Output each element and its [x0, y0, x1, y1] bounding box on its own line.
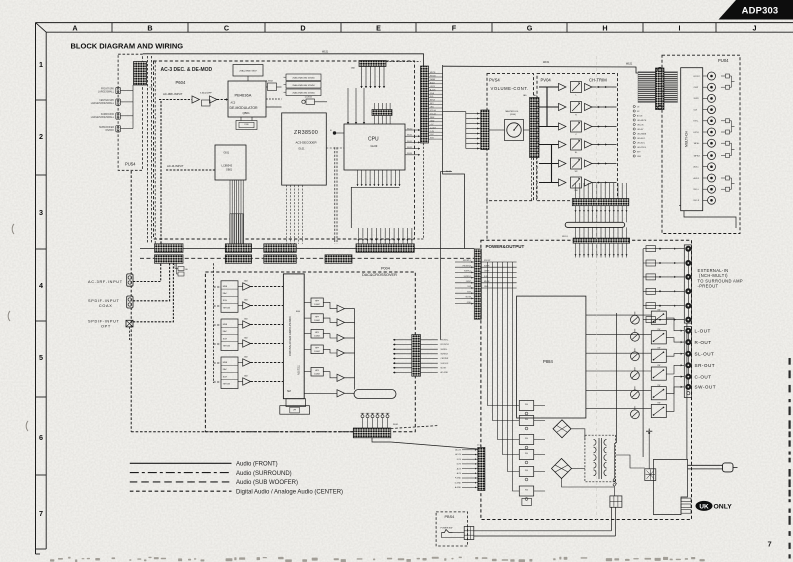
svg-text:SURR: SURR	[694, 98, 700, 100]
svg-text:GND: GND	[430, 120, 435, 122]
svg-text:OPT: OPT	[101, 324, 111, 328]
svg-text:100HZ: 100HZ	[314, 320, 321, 322]
svg-text:DE-MODULATOR: DE-MODULATOR	[230, 106, 259, 110]
svg-text:CROSS-OVER AMP/LPF/MIX: CROSS-OVER AMP/LPF/MIX	[288, 316, 292, 356]
trim channel row 4	[539, 139, 617, 154]
svg-text:1: 1	[39, 60, 43, 69]
svg-text:CH-TRIM: CH-TRIM	[589, 78, 607, 83]
svg-text:WL50: WL50	[407, 128, 413, 130]
svg-text:FRONT-R: FRONT-R	[463, 265, 472, 267]
wire vertical bus right of CPU	[441, 171, 453, 173]
connector strip on cable	[656, 68, 665, 110]
dashed box PBS4	[436, 512, 468, 546]
label EXTERNAL-IN	[698, 268, 743, 289]
svg-text:R-OUT: R-OUT	[695, 340, 712, 345]
svg-text:H: H	[602, 24, 607, 33]
IC ZR38500 AC3-DECODER GL01	[282, 113, 327, 185]
svg-text:FRONT: FRONT	[484, 260, 491, 262]
connector JB4	[225, 255, 251, 263]
svg-text:POWER SW: POWER SW	[441, 528, 453, 530]
trim channel row 5	[539, 158, 617, 173]
svg-text:MUTE: MUTE	[430, 72, 436, 74]
svg-text:FRONT-L: FRONT-L	[463, 260, 471, 262]
trim channel row 6	[539, 177, 617, 192]
fan wires below WL41	[575, 183, 628, 222]
CPU right side pins	[405, 128, 420, 156]
svg-text:GND: GND	[637, 156, 642, 158]
dashed box AC-3 DEC. & DE-MOD P604	[154, 61, 415, 239]
svg-text:LARGE/SMALL: LARGE/SMALL	[98, 91, 115, 94]
connector C8 signal list	[633, 105, 647, 157]
svg-text:GB2: GB2	[244, 338, 248, 340]
svg-text:LARGE/NONE/SMALL: LARGE/NONE/SMALL	[91, 116, 115, 119]
AC plug	[723, 463, 734, 472]
box P884	[517, 296, 586, 418]
DAC block 3	[221, 357, 238, 389]
dashed box PU04	[662, 55, 740, 233]
svg-text:GB2: GB2	[244, 300, 248, 302]
trim channel row 1	[539, 82, 617, 97]
svg-text:SUBWOOFER: SUBWOOFER	[99, 127, 114, 129]
svg-text:A-CLK: A-CLK	[430, 88, 436, 91]
svg-text:2SA4-GRAY-GB4 1/2B450: 2SA4-GRAY-GB4 1/2B450	[292, 76, 314, 79]
svg-text:7W: 7W	[657, 403, 660, 405]
tiny components below JB2	[178, 267, 184, 271]
svg-text:2SA4-GRAY-GB4 1/2B450: 2SA4-GRAY-GB4 1/2B450	[292, 91, 314, 94]
vertical wire bus to volume block	[443, 65, 465, 249]
svg-text:2SA4-GRAY GB37: 2SA4-GRAY GB37	[239, 69, 257, 72]
svg-text:7SH DB: 7SH DB	[223, 346, 231, 348]
svg-text:REC-L: REC-L	[694, 189, 699, 191]
wires ZR to CPU verticals	[347, 88, 365, 124]
amp buffer 1	[192, 96, 200, 103]
svg-text:LED-MUTE: LED-MUTE	[637, 120, 647, 122]
svg-text:7W: 7W	[657, 329, 660, 331]
svg-text:CPU: CPU	[368, 137, 379, 143]
ground tick	[646, 430, 652, 432]
svg-text:SURR-R: SURR-R	[441, 354, 449, 356]
jack SPDIF COAX	[127, 296, 133, 308]
svg-text:(2004): (2004)	[510, 114, 516, 116]
svg-text:GND: GND	[484, 286, 489, 288]
svg-text:2: 2	[39, 132, 43, 141]
svg-text:S-W: S-W	[467, 286, 471, 288]
svg-text:REM: REM	[430, 117, 435, 119]
speaker config labels	[91, 89, 115, 132]
bottom connector JC2 strip	[353, 428, 391, 438]
labels right of JD2	[481, 260, 516, 288]
fan wires below pill	[576, 227, 627, 238]
power switch symbol	[442, 530, 453, 533]
svg-text:Audio (SURROUND): Audio (SURROUND)	[236, 471, 292, 477]
wires GI01 bottom pins into bus	[230, 180, 243, 214]
svg-text:PVS4: PVS4	[489, 78, 500, 83]
bridge rectifier 1	[553, 420, 571, 438]
bridge rectifier 2	[552, 459, 572, 479]
svg-text:MUTE: MUTE	[484, 281, 490, 283]
wire long dashed bus	[140, 257, 474, 259]
svg-text:AUX-L: AUX-L	[694, 166, 699, 169]
svg-text:GB2: GB2	[244, 281, 248, 283]
box RT40 crystal	[236, 121, 257, 130]
svg-text:D-IN: D-IN	[430, 131, 435, 133]
legend line Audio SURROUND	[130, 472, 232, 474]
wires dashed pair left of CPU	[334, 147, 336, 244]
wires into JD2 with labels	[455, 260, 474, 304]
IC CROSS-OVER AMP/LPF/MIX NJU7311	[283, 274, 304, 399]
svg-text:FRONT-R: FRONT-R	[441, 344, 450, 346]
border frame left ruler band	[36, 23, 47, 554]
svg-text:LED-KARA: LED-KARA	[637, 132, 647, 135]
switch contacts	[613, 479, 615, 481]
ruler column letters A-J	[72, 24, 756, 33]
wire loop bottom of MULTI-CH	[684, 211, 736, 228]
svg-text:SCH: SCH	[223, 338, 228, 340]
IC GI01 LC89343 GB01	[215, 145, 246, 180]
svg-text:B: B	[147, 24, 152, 33]
wire AC-3RF dashed with buffer amps	[159, 99, 192, 101]
connector JB7	[325, 255, 352, 263]
jack panel strip external	[684, 245, 691, 323]
svg-text:A-9V: A-9V	[457, 472, 462, 475]
svg-text:LC89343: LC89343	[222, 164, 233, 168]
jack panel strip outputs	[684, 327, 691, 398]
wires into JC1 with labels	[455, 449, 478, 490]
svg-text:LPF: LPF	[293, 409, 296, 411]
svg-text:VOLUME-CONT.: VOLUME-CONT.	[491, 86, 529, 91]
svg-text:E: E	[376, 24, 381, 33]
svg-text:VOL-B: VOL-B	[430, 114, 436, 116]
legend line Audio SUB WOOFER	[130, 481, 232, 483]
IC PB4636A AC3 DE-MODULATOR QB01	[228, 81, 266, 117]
connector strip above CPU	[372, 110, 392, 116]
svg-text:ONLY: ONLY	[714, 504, 733, 511]
svg-text:ON/OFF: ON/OFF	[105, 130, 114, 132]
svg-text:PB4636A: PB4636A	[235, 93, 252, 98]
output jacks	[686, 328, 691, 390]
left margin curl marks	[8, 224, 28, 431]
wire JC2 to power connector	[372, 438, 478, 449]
BPF 5.6442 block	[202, 100, 211, 106]
connector JA6 strip top middle	[359, 61, 386, 67]
wire dashed PVS4 bottom to POWER box	[486, 201, 488, 241]
wires into PVS4 with arrows	[466, 112, 481, 149]
svg-text:MSB: MSB	[223, 324, 228, 326]
wires fan below JA6	[360, 67, 385, 89]
legend line Digital Audio	[130, 490, 232, 492]
motorized pot circles	[631, 312, 640, 419]
svg-text:REC-R: REC-R	[694, 200, 700, 202]
dashed feeder to DACs	[213, 263, 215, 383]
svg-text:7W: 7W	[657, 385, 660, 387]
svg-text:WL61: WL61	[393, 424, 399, 426]
svg-text:WL51: WL51	[407, 135, 413, 137]
svg-text:SCL: SCL	[430, 96, 434, 98]
DAC block 2	[221, 319, 238, 351]
connector JC1 power strip	[478, 447, 485, 490]
svg-text:L-OUT: L-OUT	[695, 329, 711, 334]
svg-text:GB2: GB2	[244, 357, 248, 359]
svg-text:MUTE: MUTE	[441, 368, 447, 370]
connector strip WL51 lower	[573, 238, 630, 243]
svg-text:BCLK: BCLK	[430, 82, 436, 84]
svg-text:LED-PRO4: LED-PRO4	[637, 147, 646, 149]
svg-text:100HZ: 100HZ	[314, 351, 321, 353]
wire long solid bus front-audio	[140, 248, 474, 250]
svg-text:SPDIF-INPUT: SPDIF-INPUT	[88, 319, 120, 323]
svg-text:GL03: GL03	[371, 144, 378, 148]
svg-text:INT-B: INT-B	[430, 100, 436, 102]
svg-text:C-OUT: C-OUT	[695, 374, 712, 379]
svg-text:DATA: DATA	[430, 78, 435, 81]
svg-text:Digital Audio / Analoge Audio: Digital Audio / Analoge Audio (CENTER)	[236, 490, 343, 496]
trim channel row 3	[539, 121, 617, 136]
dashed box PV04 CH-TRIM	[537, 74, 618, 201]
svg-text:100HZ: 100HZ	[314, 304, 321, 306]
svg-text:SW-OUT: SW-OUT	[695, 385, 717, 390]
svg-text:ZR38500: ZR38500	[294, 130, 318, 136]
svg-text:QB01: QB01	[243, 111, 251, 115]
svg-text:PU54: PU54	[125, 162, 136, 167]
svg-text:RG: RG	[525, 404, 528, 406]
vertical bus to relays	[642, 249, 644, 457]
power feed verticals	[488, 262, 520, 491]
svg-text:CENT: CENT	[466, 281, 472, 283]
trim channel row 2	[539, 102, 617, 117]
svg-text:D-OUT: D-OUT	[430, 127, 437, 129]
svg-text:7SH DB: 7SH DB	[223, 384, 231, 386]
connector JB3	[225, 244, 251, 253]
pins above wide connector JB8	[358, 228, 413, 244]
UK ONLY badge	[696, 501, 713, 511]
svg-text:SCH: SCH	[223, 376, 228, 378]
bead component left of CPU	[333, 131, 336, 134]
svg-text:D-GND: D-GND	[455, 482, 462, 484]
svg-text:PV04: PV04	[541, 78, 552, 83]
svg-text:GND: GND	[467, 302, 472, 304]
svg-text:RG: RG	[525, 419, 528, 421]
connector PU54 pin strip	[134, 62, 147, 86]
svg-text:EXT-R: EXT-R	[694, 132, 700, 134]
svg-text:GB2: GB2	[244, 376, 248, 378]
external-in rows	[643, 246, 685, 323]
svg-text:100HZ: 100HZ	[314, 335, 321, 337]
svg-text:LED-BL/O: LED-BL/O	[637, 138, 646, 140]
svg-text:SURR-R: SURR-R	[464, 276, 472, 278]
svg-text:MUTE: MUTE	[466, 297, 472, 299]
svg-text:F: F	[452, 24, 457, 33]
labels L-OUT R-OUT SL-OUT SR-OUT C-OUT SW-OUT	[695, 329, 717, 390]
svg-text:GB01: GB01	[226, 169, 233, 172]
scan fold line	[596, 56, 598, 520]
jack AC-3RF	[127, 274, 133, 286]
svg-text:WL52: WL52	[407, 141, 413, 143]
svg-text:Audio (FRONT): Audio (FRONT)	[236, 462, 278, 468]
svg-text:AC-3RF-INPUT: AC-3RF-INPUT	[88, 280, 123, 284]
svg-text:C8: C8	[637, 106, 639, 108]
svg-text:BLOCK DIAGRAM AND WIRING: BLOCK DIAGRAM AND WIRING	[71, 42, 184, 51]
svg-text:7: 7	[39, 509, 43, 518]
svg-text:6: 6	[39, 433, 43, 442]
svg-text:3: 3	[39, 208, 43, 217]
crossover output rows to JD1	[393, 339, 438, 374]
svg-text:7W: 7W	[657, 347, 660, 349]
svg-text:P884: P884	[543, 359, 553, 364]
wire dashed vertical digital-audio run	[130, 171, 132, 432]
svg-text:TAPE-R: TAPE-R	[694, 154, 701, 157]
svg-text:GB2: GB2	[244, 319, 248, 321]
svg-text:G: G	[527, 24, 533, 33]
svg-text:SM: SM	[287, 390, 291, 393]
svg-text:WL51: WL51	[562, 236, 568, 238]
regulator blocks	[519, 401, 545, 501]
svg-text:Audio (SUB WOOFER): Audio (SUB WOOFER)	[236, 480, 298, 486]
svg-text:SW: SW	[574, 190, 577, 192]
svg-text:EXT-L: EXT-L	[694, 121, 699, 123]
svg-text:PBS4: PBS4	[445, 515, 455, 519]
svg-text:UK: UK	[699, 503, 709, 510]
svg-text:LARGE/NONE/SMALL: LARGE/NONE/SMALL	[91, 102, 115, 105]
svg-text:4-3942: 4-3942	[266, 81, 274, 83]
wires PB4636A to ZR38500	[266, 98, 282, 100]
RCA jack column PU04	[703, 72, 716, 204]
small block below regulators	[522, 498, 532, 505]
ruler row numbers 1-7	[39, 60, 43, 518]
connector JD2 strip vertical	[474, 249, 481, 319]
svg-text:5.6442-BPF: 5.6442-BPF	[200, 93, 212, 95]
svg-text:RG: RG	[525, 438, 528, 440]
svg-text:I: I	[679, 24, 681, 33]
svg-text:RG: RG	[525, 453, 528, 455]
svg-text:P004: P004	[381, 267, 390, 271]
svg-text:AC3-DECODER: AC3-DECODER	[296, 141, 317, 145]
svg-text:FRONT-SPK: FRONT-SPK	[101, 89, 115, 91]
HPF 100HZ blocks	[311, 298, 323, 307]
svg-text:A-5V: A-5V	[457, 467, 462, 470]
svg-text:RST-B: RST-B	[430, 76, 436, 78]
connector JB5	[264, 244, 297, 253]
connector strip PVS4 input	[481, 110, 489, 150]
ribbon bus pill	[565, 222, 625, 227]
feeder wire CH-TRIM	[546, 87, 548, 127]
transistor 4-3942	[268, 83, 277, 91]
AC inlet module	[654, 459, 688, 514]
vertical wire bundle below GI01	[230, 214, 244, 244]
svg-text:P604: P604	[176, 80, 186, 85]
IC CPU GL03	[344, 124, 405, 170]
svg-text:LED: LED	[430, 107, 434, 109]
dashed box POWER and OUTPUT	[481, 240, 692, 519]
scan bottom cut text band	[50, 557, 705, 562]
svg-text:DAC: DAC	[223, 330, 228, 333]
connector PBS4 2x3	[464, 527, 474, 540]
op-amps after DACs	[243, 283, 251, 290]
svg-text:RT40: RT40	[244, 124, 248, 126]
wire dashed verticals from PU54	[147, 56, 149, 244]
connector JB6	[264, 255, 297, 263]
svg-text:S-W: S-W	[694, 109, 698, 111]
dashed box PVS4 VOLUME-CONT.	[487, 74, 534, 201]
wire AC-3I dashed	[166, 169, 215, 171]
connector JB8 wide	[356, 244, 414, 253]
svg-text:DAC&CROSSOVER: DAC&CROSSOVER	[362, 273, 397, 277]
svg-text:GI01: GI01	[224, 151, 230, 155]
svg-text:WL51: WL51	[322, 51, 329, 54]
svg-text:NJU7311: NJU7311	[298, 364, 301, 374]
connector JB9 tall pin strip	[421, 66, 429, 143]
DAC block 1	[221, 281, 238, 313]
fan wires into power block	[575, 243, 628, 257]
svg-text:AUX-R: AUX-R	[694, 177, 700, 180]
svg-text:C: C	[224, 24, 229, 33]
ADP303 header banner	[719, 0, 793, 20]
svg-text:MSB: MSB	[223, 362, 228, 364]
wires ZR38500 bottom pins	[287, 185, 303, 244]
svg-text:CENT: CENT	[484, 271, 490, 273]
connector block PU54 outline	[118, 54, 142, 170]
svg-text:MASTER-VOL: MASTER-VOL	[506, 110, 520, 113]
AC power cord	[688, 464, 723, 466]
relay switch blocks 7W	[651, 309, 666, 417]
line filter	[645, 469, 656, 481]
box 2SA4-GRAY GB37	[233, 65, 263, 77]
scan right edge marks	[788, 358, 790, 559]
svg-text:P-GND: P-GND	[455, 478, 462, 480]
legend line Audio FRONT	[130, 462, 232, 464]
svg-text:SCH: SCH	[223, 300, 228, 302]
svg-text:POWER&OUTPUT: POWER&OUTPUT	[486, 244, 525, 249]
svg-text:DAC: DAC	[223, 292, 228, 295]
svg-text:7SH DB: 7SH DB	[223, 307, 231, 309]
svg-text:MULTI-CH: MULTI-CH	[685, 130, 689, 146]
svg-text:S-WOOF: S-WOOF	[441, 363, 450, 365]
svg-text:FRONT-L: FRONT-L	[441, 340, 449, 342]
svg-text:ADP303: ADP303	[742, 5, 779, 16]
svg-text:TAPE-L: TAPE-L	[694, 142, 700, 145]
svg-text:LED-BY: LED-BY	[637, 129, 644, 131]
svg-text:D: D	[300, 24, 305, 33]
svg-text:AC-9V: AC-9V	[455, 453, 461, 456]
feeder to PVS4 inputs	[465, 112, 467, 149]
MULTI-CH selector box	[681, 68, 703, 211]
wires dashed JA5 down	[531, 158, 533, 201]
svg-text:CENTER: CENTER	[441, 358, 449, 360]
svg-text:AC-3I-INPUT: AC-3I-INPUT	[167, 164, 184, 168]
transformer T901	[585, 435, 616, 482]
svg-text:SURR: SURR	[484, 265, 490, 267]
CPU bottom pin stubs	[357, 170, 401, 186]
svg-text:SURROUND: SURROUND	[101, 114, 115, 116]
wire top bus WL51	[143, 54, 424, 66]
svg-text:DAC: DAC	[223, 368, 228, 371]
output rows	[586, 315, 684, 411]
svg-text:CENTER-SPK: CENTER-SPK	[99, 100, 114, 102]
svg-text:7W: 7W	[657, 365, 660, 367]
svg-text:COAX: COAX	[99, 304, 113, 308]
svg-text:PU04: PU04	[718, 58, 729, 63]
svg-text:J: J	[753, 24, 757, 33]
wire CPU bottom to JB8 bundle	[351, 187, 399, 228]
svg-text:AC-5V: AC-5V	[455, 449, 461, 452]
pedestal below crossover IC	[286, 399, 306, 407]
wire pair PBS4 to power connector	[474, 530, 612, 532]
svg-text:WL54: WL54	[407, 153, 413, 155]
svg-text:D-5V: D-5V	[457, 459, 462, 461]
svg-text:SR-OUT: SR-OUT	[695, 363, 716, 368]
wires transformer to line filter	[616, 455, 645, 468]
test pins above JC2	[361, 413, 390, 428]
svg-text:FRONT: FRONT	[694, 76, 701, 78]
